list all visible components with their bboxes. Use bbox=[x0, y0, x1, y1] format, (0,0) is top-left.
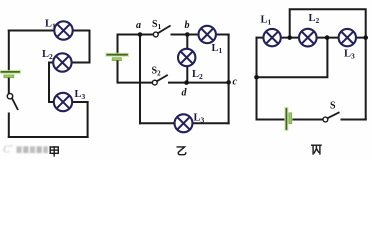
wire: bing bottom wire right segment (switch to right rail) bbox=[342, 119, 366, 121]
battery (bing) long plate bbox=[284, 109, 288, 129]
node dot2 (after L2, bing) bbox=[325, 35, 330, 40]
wire: jia connector L2-row to L3-row bbox=[48, 63, 50, 103]
battery (yi) long plate bbox=[107, 53, 127, 57]
lamp L1 (jia) bbox=[54, 21, 72, 39]
label BING (Chinese character drawn as strokes) bbox=[312, 145, 321, 154]
switch (jia) pivot circle bbox=[7, 94, 12, 99]
wire: jia bottom wire bbox=[9, 136, 88, 138]
wire: bing bottom wire left segment (to battery) bbox=[257, 119, 284, 121]
wire: yi top wire right segment (S1 to right corner) bbox=[172, 34, 229, 36]
wire: jia right rail 2 (L3 row down) bbox=[87, 102, 89, 137]
wire: bing middle branch (left rail dot to below dot2, up to dot2) bbox=[257, 38, 328, 78]
svg-text:L3: L3 bbox=[194, 113, 205, 125]
lamp L1 (bing) bbox=[263, 29, 280, 46]
battery (bing) short thick plate bbox=[289, 113, 292, 124]
svg-text:S: S bbox=[330, 101, 336, 112]
svg-text:L1: L1 bbox=[45, 19, 56, 31]
svg-text:S1: S1 bbox=[152, 19, 162, 31]
wire: bing right rail bbox=[365, 38, 367, 120]
svg-text:L2: L2 bbox=[42, 49, 53, 61]
switch S2 blade bbox=[157, 75, 167, 81]
wire: yi bottom wire bbox=[140, 122, 229, 124]
wire: jia right rail 1 (top to L2 row) bbox=[89, 31, 91, 63]
svg-text:C: C bbox=[3, 145, 10, 156]
svg-text:L3: L3 bbox=[344, 49, 355, 61]
lamp L1 (yi) bbox=[199, 26, 216, 43]
wire: jia L2 row bbox=[49, 62, 90, 64]
battery G1 short thick plate (negative) bbox=[4, 75, 14, 78]
node c bbox=[226, 80, 231, 85]
node a bbox=[138, 32, 143, 37]
svg-text:L1: L1 bbox=[261, 15, 272, 27]
node b bbox=[185, 32, 190, 37]
wire: jia L3 row bbox=[49, 101, 88, 103]
lamp L2 (yi) bbox=[178, 49, 195, 66]
switch S2 pivot circle bbox=[152, 80, 157, 85]
wire: yi top wire left segment (corner to S1) bbox=[118, 34, 154, 36]
svg-text:a: a bbox=[136, 20, 141, 31]
svg-text:L2: L2 bbox=[192, 69, 203, 81]
node d bbox=[184, 80, 189, 85]
node dot3 (lamp row joins right rail, bing) bbox=[363, 35, 368, 40]
wire: bing bottom wire mid segment (battery to switch) bbox=[293, 119, 322, 121]
node dot1 (after L1, bing) bbox=[287, 35, 292, 40]
svg-text:c: c bbox=[233, 77, 238, 88]
svg-text:b: b bbox=[185, 20, 190, 31]
wire: jia top wire bbox=[9, 30, 90, 32]
svg-text:²¹: ²¹ bbox=[10, 144, 14, 150]
battery G1 long plate (positive) bbox=[2, 70, 20, 74]
switch S blade bbox=[328, 113, 339, 119]
lamp L2 (bing) bbox=[299, 29, 317, 47]
wire: yi vertical b to d bbox=[186, 35, 188, 83]
watermark bottom-left (blurred gray) bbox=[3, 144, 48, 156]
wire: bing lamp row bbox=[257, 37, 366, 39]
wire: bing left rail bbox=[256, 38, 258, 120]
svg-text:d: d bbox=[182, 88, 188, 99]
switch S1 blade bbox=[158, 26, 170, 33]
svg-text:L2: L2 bbox=[309, 13, 320, 25]
lamp L3 (bing) bbox=[339, 29, 356, 46]
label YI (Chinese character drawn as strokes) bbox=[177, 147, 186, 155]
node dot4 (middle branch joins left rail, bing) bbox=[254, 75, 259, 80]
wire: yi left rail upper (corner to battery) bbox=[117, 35, 119, 54]
switch S1 pivot circle bbox=[153, 32, 158, 37]
svg-text:L1: L1 bbox=[212, 43, 223, 55]
label JIA (Chinese character drawn as strokes) bbox=[50, 147, 58, 156]
switch S pivot circle bbox=[323, 117, 328, 122]
lamp L3 (jia) bbox=[54, 93, 72, 111]
wire: yi right rail bbox=[228, 35, 230, 124]
switch (jia) blade bbox=[12, 98, 18, 109]
wire: jia left rail upper (top corner to battery) bbox=[8, 31, 10, 71]
battery (yi) short thick plate bbox=[112, 58, 121, 61]
wire: yi S2 row right segment (S2 to c) bbox=[169, 82, 229, 84]
wire: jia rail between battery and switch bbox=[8, 79, 10, 94]
wire: bing top bypass (dot1 up, over, down to right rail) bbox=[290, 9, 366, 37]
svg-text:S2: S2 bbox=[152, 66, 162, 78]
svg-text:L3: L3 bbox=[75, 89, 86, 101]
lamp L2 (jia) bbox=[53, 53, 71, 71]
wire: jia rail below switch to bottom bbox=[8, 114, 10, 138]
lamp L3 (yi) bbox=[175, 114, 193, 132]
wire: yi left rail lower (battery to S2 row corner) bbox=[118, 61, 153, 82]
wire: yi vertical from a down to bottom bbox=[139, 35, 141, 124]
